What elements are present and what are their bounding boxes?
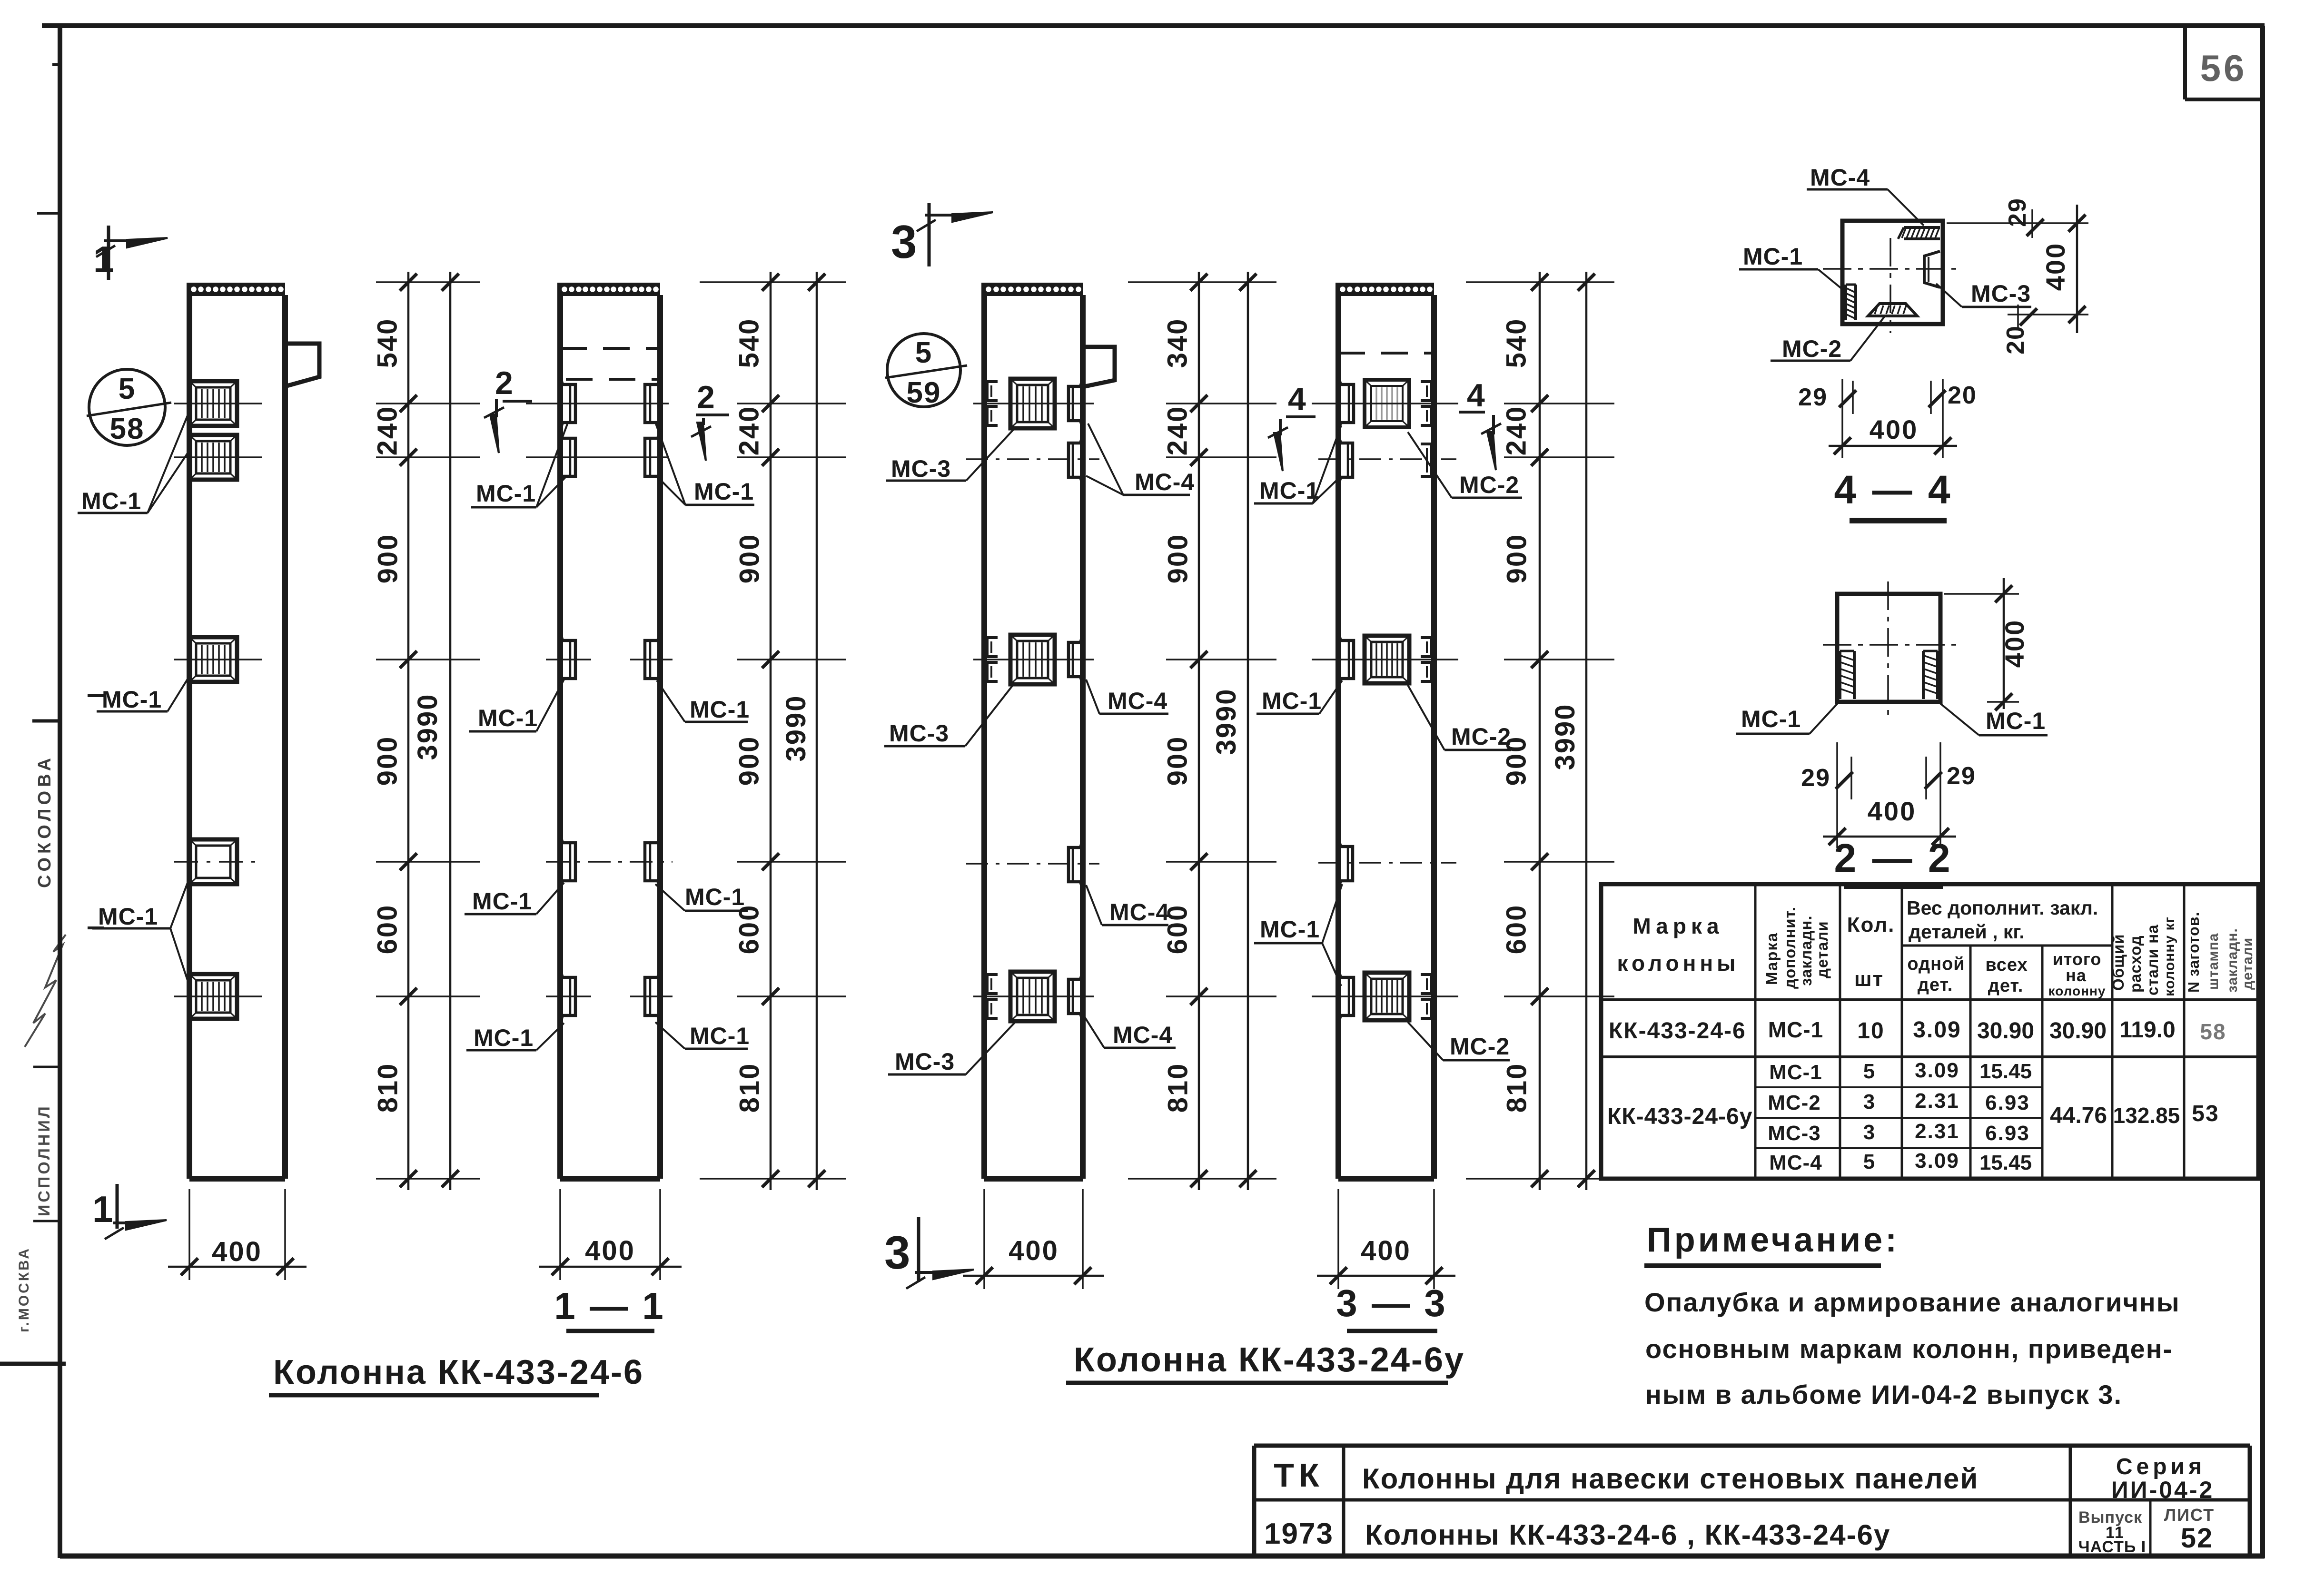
svg-text:г.МОСКВА: г.МОСКВА (16, 1247, 32, 1332)
embedded plate МС-1 on column 1 at row 2 (189, 435, 237, 480)
svg-text:2.31: 2.31 (1915, 1120, 1959, 1143)
svg-text:МС-1: МС-1 (1986, 708, 2046, 734)
title block sheet subject (1365, 1519, 1890, 1551)
svg-text:2: 2 (495, 365, 513, 401)
svg-text:5: 5 (915, 336, 932, 369)
svg-text:дополнит.: дополнит. (1781, 906, 1799, 989)
embedded plate МС-1 on column 1 at row 3 (189, 637, 237, 682)
svg-text:штампа: штампа (2206, 933, 2221, 990)
table row КК-433-24-6у (1607, 1059, 2219, 1174)
svg-text:3: 3 (1863, 1090, 1876, 1113)
svg-text:3.09: 3.09 (1915, 1149, 1959, 1172)
svg-text:2: 2 (697, 379, 715, 415)
svg-text:900: 900 (1163, 533, 1194, 584)
svg-text:59: 59 (907, 376, 941, 409)
margin signature (25, 935, 66, 1047)
plate tabs edge view column 2 row 5 (560, 970, 660, 1023)
column КК-433-24-6у front view outline (1338, 283, 1434, 1179)
svg-text:КК-433-24-6у: КК-433-24-6у (1607, 1104, 1752, 1129)
svg-text:5: 5 (1863, 1060, 1876, 1083)
svg-text:400: 400 (1868, 796, 1916, 826)
svg-text:6.93: 6.93 (1985, 1091, 2030, 1114)
svg-text:400: 400 (1361, 1235, 1411, 1266)
svg-text:МС-1: МС-1 (690, 696, 750, 723)
svg-text:МС-4: МС-4 (1109, 899, 1169, 926)
svg-text:900: 900 (373, 533, 404, 584)
table row КК-433-24-6 (1609, 1017, 2226, 1044)
plate МС-4 in section 4-4 (1898, 227, 1940, 239)
svg-text:Вес дополнит. закл.: Вес дополнит. закл. (1907, 897, 2098, 919)
svg-text:3990: 3990 (1211, 688, 1242, 755)
svg-text:МС-3: МС-3 (889, 720, 949, 747)
svg-text:600: 600 (734, 904, 765, 955)
title block year 1973 (1264, 1517, 1334, 1550)
label МС-1 (column 2 mid-left tab) (469, 680, 564, 731)
overall dimension 3990 (column 1) (412, 272, 459, 1190)
centerline row 5 column 2 (546, 995, 673, 997)
embedded plate МС-1 on column 1 at row 4 (189, 839, 237, 884)
label МС-1 (column 2 row4-right tab) (655, 884, 748, 911)
svg-text:20: 20 (1948, 382, 1977, 409)
svg-text:1973: 1973 (1264, 1517, 1334, 1550)
title block grid (1254, 1446, 2250, 1556)
plates on column 3 row 2 (1068, 436, 1083, 484)
embedded plate МС-1 on column 1 at row 5 (189, 974, 237, 1019)
dimension 29-400-29 under 2-2 (1801, 742, 1976, 848)
centerline row 2 column 1 (174, 456, 262, 458)
svg-text:30.90: 30.90 (1977, 1018, 2034, 1044)
svg-text:на: на (2066, 965, 2087, 985)
centerline row 5 column 1 (174, 995, 262, 997)
extension lines chain C (700, 282, 846, 1179)
svg-text:3: 3 (1863, 1121, 1876, 1144)
label МС-1 (section 4-4) (1739, 243, 1845, 291)
svg-text:900: 900 (734, 533, 765, 584)
dimension chain line (column 1) (400, 272, 417, 1190)
centerline row 3 column 4 (1312, 659, 1458, 660)
svg-text:29: 29 (2004, 197, 2031, 227)
section marker 1 (top) (93, 226, 168, 280)
svg-text:29: 29 (1947, 762, 1976, 790)
title block subject (1362, 1463, 1979, 1495)
svg-text:МС-4: МС-4 (1113, 1022, 1173, 1048)
label МС-1 (column 2 row5-right tab) (655, 1022, 750, 1049)
centerline row 3 column 1 (174, 659, 262, 660)
label МС-1 (column 4 top tab) (1254, 425, 1341, 504)
dimension 400 under column 1 (168, 1189, 307, 1280)
dimension chain labels (column 4) (1501, 318, 1533, 1113)
section marker 1 (bottom) (92, 1184, 167, 1239)
label МС-2 (column 4 top plate) (1408, 432, 1522, 498)
svg-text:колонну кг: колонну кг (2162, 916, 2177, 996)
label МС-1 (column 1 top plates) (78, 412, 189, 514)
svg-text:расход: расход (2127, 935, 2144, 993)
dimension 400 under column 3 (963, 1189, 1104, 1289)
label МС-1 (column 2 mid-right tab) (657, 680, 750, 723)
centerline row 1 column 4 (1312, 403, 1458, 404)
label МС-3 (column 3 top) (886, 429, 1014, 482)
svg-text:132.85: 132.85 (2113, 1103, 2180, 1128)
centerline row 4 column 1 (174, 861, 263, 863)
svg-text:МС-1: МС-1 (474, 1025, 534, 1051)
dimension 400 under column 2 (539, 1189, 682, 1280)
svg-text:шт: шт (1854, 967, 1884, 991)
label МС-2 (column 4 bottom plate) (1408, 1022, 1510, 1060)
svg-text:15.45: 15.45 (1979, 1060, 2032, 1083)
dimension chain line (column 4) (1531, 272, 1548, 1190)
svg-text:Опалубка и армирование аналог: Опалубка и армирование аналогичны (1644, 1287, 2180, 1317)
title block Выпуск 11 Часть I (2078, 1508, 2146, 1556)
svg-text:дет.: дет. (1988, 976, 2024, 996)
label МС-2 (column 4 middle plate) (1408, 685, 1511, 750)
svg-text:400: 400 (212, 1236, 262, 1267)
svg-text:810: 810 (1163, 1063, 1194, 1113)
embedded plate МС-1 on column 1 at row 1 (189, 381, 237, 426)
svg-text:колонну: колонну (2048, 984, 2106, 998)
label МС-3 (column 3 middle) (884, 685, 1013, 747)
plates МС-1 in section 2-2 (1840, 651, 1938, 699)
svg-text:119.0: 119.0 (2119, 1017, 2175, 1043)
centerlines of section 4-4 (1823, 238, 1959, 333)
plates on column 3 row 5 (987, 972, 1083, 1021)
svg-text:ЧАСТЬ I: ЧАСТЬ I (2078, 1538, 2146, 1556)
centerline row 5 column 4 (1312, 995, 1458, 997)
svg-text:одной: одной (1907, 954, 1965, 974)
column 2 formwork top band (560, 283, 660, 296)
margin stamp ИСПОЛНИЛ (33, 1067, 61, 1221)
svg-text:53: 53 (2192, 1101, 2219, 1126)
column 1 console bracket (285, 344, 319, 386)
label МС-1 (column 4 middle tab) (1256, 680, 1342, 714)
note heading Примечание (1644, 1221, 1899, 1266)
plate tabs edge view column 2 row 4 (560, 836, 660, 888)
svg-text:МС-1: МС-1 (98, 903, 158, 930)
centerline row 4 column 4 (1318, 862, 1456, 864)
svg-text:МС-1: МС-1 (472, 888, 532, 915)
dimension 400 right of 2-2 (1944, 578, 2029, 710)
label МС-3 (section 4-4) (1936, 280, 2031, 307)
column КК-433-24-6 front view outline (560, 283, 660, 1179)
label МС-1 (section 2-2 right) (1939, 703, 2048, 735)
caption 2-2 (1834, 836, 1952, 886)
svg-text:29: 29 (1801, 764, 1830, 792)
svg-text:4 — 4: 4 — 4 (1834, 467, 1952, 512)
svg-text:МС-3: МС-3 (891, 455, 951, 482)
plate МС-1 in section 4-4 (1846, 285, 1856, 320)
margin stamp МОСКВА (16, 1247, 32, 1332)
svg-text:400: 400 (585, 1235, 635, 1266)
svg-text:1: 1 (93, 238, 114, 280)
table header Общий расход стали (2109, 916, 2177, 996)
table header Одной дет (1907, 954, 1965, 995)
svg-text:1 — 1: 1 — 1 (554, 1285, 665, 1327)
dimension chain labels (column 3) (1162, 318, 1194, 1113)
label МС-1 (column 2 top-right tabs) (655, 423, 754, 505)
svg-text:МС-1: МС-1 (476, 480, 536, 507)
svg-text:30.90: 30.90 (2049, 1018, 2107, 1044)
svg-text:240: 240 (734, 405, 765, 456)
title block Лист 52 (2164, 1505, 2215, 1554)
svg-text:МС-4: МС-4 (1135, 469, 1195, 495)
svg-text:900: 900 (1501, 736, 1532, 786)
svg-text:240: 240 (1162, 405, 1193, 456)
section marker 3 (bottom) (884, 1217, 974, 1289)
caption Колонна КК-433-24-6у (1066, 1341, 1465, 1383)
svg-text:3 — 3: 3 — 3 (1336, 1282, 1447, 1324)
svg-text:ным в альбоме ИИ-04-2 выпуск: ным в альбоме ИИ-04-2 выпуск 3. (1645, 1379, 2122, 1409)
caption 1-1 (554, 1285, 665, 1331)
dimension chain labels 540-240-900-900-600-810 (column 1) (372, 318, 404, 1113)
plate tabs edge view column 2 row 1 (560, 377, 660, 430)
section marker 3 (top) (891, 203, 993, 268)
extension lines chain E (1128, 282, 1276, 1179)
svg-text:основным маркам колонн, прив: основным маркам колонн, приведен- (1645, 1334, 2173, 1364)
centerline row 4 column 3 (966, 863, 1099, 865)
dimension 29-400-20 right of 4-4 (1947, 197, 2088, 355)
svg-text:N заготов.: N заготов. (2185, 912, 2202, 993)
svg-text:540: 540 (734, 318, 765, 368)
plates on column 4 row 4 (1338, 839, 1353, 888)
centerline row 2 column 2 (526, 456, 669, 458)
plates on column 3 row 3 (987, 635, 1083, 684)
callout circle 5/59 (885, 334, 967, 409)
svg-text:МС-3: МС-3 (1768, 1122, 1821, 1145)
centerlines of section 2-2 (1823, 581, 1956, 718)
svg-text:ИИ-04-2: ИИ-04-2 (2111, 1477, 2215, 1503)
label МС-1 (column 2 top-left tabs) (471, 422, 568, 507)
svg-text:Серия: Серия (2116, 1454, 2206, 1479)
section marker 2 (left of column 2) (484, 365, 532, 453)
callout circle 5/58 (87, 369, 171, 445)
svg-text:МС-1: МС-1 (690, 1023, 750, 1049)
dimension 29-400-20 under 4-4 (1798, 379, 1977, 458)
svg-text:детали: детали (2240, 937, 2256, 990)
svg-text:МС-3: МС-3 (895, 1048, 955, 1075)
table header Марка колонны (1617, 914, 1740, 975)
svg-text:4: 4 (1288, 381, 1306, 417)
table grid (1601, 884, 2258, 1179)
overall dimension 3990 (column 3) (1211, 272, 1256, 1190)
svg-text:МС-1: МС-1 (1741, 706, 1801, 732)
svg-text:2.31: 2.31 (1915, 1089, 1959, 1113)
label МС-4 (column 3 bottom tab) (1083, 1014, 1176, 1048)
plate МС-3 in section 4-4 (1924, 251, 1940, 287)
svg-text:МС-1: МС-1 (1769, 1061, 1822, 1084)
svg-text:3990: 3990 (781, 694, 811, 761)
svg-text:МС-4: МС-4 (1810, 164, 1870, 191)
svg-text:810: 810 (1502, 1063, 1533, 1113)
plate МС-2 in section 4-4 (1868, 304, 1917, 316)
section marker 4 (left of column 4) (1268, 381, 1316, 471)
svg-text:900: 900 (372, 736, 403, 786)
svg-text:МС-1: МС-1 (1260, 916, 1320, 943)
svg-text:3: 3 (884, 1226, 910, 1279)
centerline row 5 column 3 (973, 995, 1094, 997)
svg-text:МС-1: МС-1 (1262, 688, 1322, 714)
extension lines chain G (1466, 282, 1614, 1179)
centerline row 2 column 3 (966, 458, 1099, 460)
svg-text:МС-2: МС-2 (1768, 1091, 1821, 1114)
detail 4-4 column section outline (1842, 221, 1943, 324)
svg-text:5: 5 (1863, 1150, 1876, 1173)
svg-text:3: 3 (891, 216, 917, 268)
note line 3 (1645, 1379, 2122, 1409)
svg-text:340: 340 (1162, 318, 1193, 368)
svg-text:МС-1: МС-1 (478, 705, 538, 731)
svg-text:400: 400 (1999, 619, 2029, 668)
svg-text:400: 400 (1870, 414, 1918, 444)
note line 2 (1645, 1334, 2173, 1364)
margin fold marks (0, 65, 104, 1364)
dimension chain line (column 3) (1190, 272, 1207, 1190)
table header N заготовки (2185, 912, 2256, 993)
svg-text:детали: детали (1813, 921, 1831, 978)
svg-text:МС-1: МС-1 (1768, 1017, 1823, 1042)
svg-text:МС-1: МС-1 (102, 686, 162, 713)
svg-text:ЛИСТ: ЛИСТ (2164, 1505, 2215, 1525)
label МС-1 (section 2-2 left) (1736, 703, 1838, 734)
svg-text:стали на: стали на (2144, 924, 2161, 995)
svg-text:колонны: колонны (1617, 951, 1740, 975)
svg-text:закладн.: закладн. (2225, 928, 2240, 993)
column 2 hidden console dashed lines (560, 348, 660, 379)
svg-text:всех: всех (1985, 955, 2028, 975)
svg-text:Общий: Общий (2109, 934, 2127, 991)
svg-text:Колонна КК-433-24-6у: Колонна КК-433-24-6у (1074, 1341, 1465, 1379)
svg-text:540: 540 (372, 318, 403, 368)
note line 1 (1644, 1287, 2180, 1317)
dimension chain labels (column 2) (734, 318, 765, 1113)
svg-text:Колонны КК-433-24-6 , КК-433-: Колонны КК-433-24-6 , КК-433-24-6у (1365, 1519, 1890, 1551)
detail 2-2 column section outline (1837, 594, 1940, 702)
svg-text:МС-2: МС-2 (1459, 472, 1519, 498)
section marker 4 (right of column 4) (1459, 377, 1501, 470)
svg-text:52: 52 (2181, 1523, 2214, 1554)
plates on column 4 row 3 (1338, 633, 1431, 686)
column 1 formwork top band (189, 283, 285, 296)
svg-text:КК-433-24-6: КК-433-24-6 (1609, 1018, 1746, 1044)
extension lines chain A (376, 282, 480, 1179)
svg-text:3990: 3990 (412, 693, 443, 760)
centerline row 1 column 1 (174, 403, 262, 404)
svg-text:ИСПОЛНИЛ: ИСПОЛНИЛ (35, 1104, 53, 1216)
plates on column 4 row 1 (1338, 377, 1431, 430)
svg-text:240: 240 (1501, 405, 1532, 456)
svg-text:810: 810 (734, 1063, 765, 1113)
svg-text:44.76: 44.76 (2050, 1103, 2107, 1128)
label МС-3 (column 3 bottom) (888, 1022, 1015, 1075)
svg-text:Марка: Марка (1763, 932, 1781, 985)
svg-text:МС-1: МС-1 (694, 478, 754, 505)
svg-text:закладн.: закладн. (1797, 915, 1815, 986)
svg-text:20: 20 (2002, 325, 2029, 355)
svg-text:Колонна КК-433-24-6: Колонна КК-433-24-6 (273, 1353, 644, 1391)
label МС-4 (column 3 top tabs) (1086, 424, 1195, 495)
caption Колонна КК-433-24-6 (269, 1353, 644, 1395)
centerline row 1 column 2 (526, 403, 669, 404)
svg-text:600: 600 (1501, 904, 1532, 955)
svg-text:1: 1 (92, 1188, 113, 1230)
svg-text:3.09: 3.09 (1913, 1017, 1961, 1043)
svg-text:600: 600 (1162, 904, 1193, 955)
label МС-2 (section 4-4) (1771, 315, 1886, 362)
svg-text:29: 29 (1798, 384, 1828, 411)
table header Кол шт (1847, 913, 1895, 991)
svg-text:дет.: дет. (1918, 975, 1953, 995)
plate tabs edge view column 2 row 2 (560, 431, 660, 483)
label МС-4 (column 3 middle tab) (1086, 680, 1168, 714)
svg-text:Примечание:: Примечание: (1647, 1221, 1899, 1259)
svg-text:4: 4 (1467, 377, 1485, 414)
column КК-433-24-6у side view outline (984, 283, 1083, 1179)
section marker 2 (right of column 2) (691, 379, 729, 461)
svg-text:МС-4: МС-4 (1108, 688, 1167, 714)
title block Серия ИИ-04-2 (2111, 1454, 2215, 1503)
column КК-433-24-6 side view outline (189, 283, 285, 1179)
caption 3-3 (1336, 1282, 1447, 1331)
svg-text:56: 56 (2200, 47, 2247, 89)
svg-text:Кол.: Кол. (1847, 913, 1895, 936)
table header Итого на колонну (2048, 949, 2106, 998)
svg-text:МС-3: МС-3 (1971, 280, 2031, 307)
title block ТК (1274, 1457, 1324, 1494)
svg-text:600: 600 (372, 904, 403, 955)
svg-text:МС-1: МС-1 (1259, 477, 1319, 504)
svg-text:МС-2: МС-2 (1450, 1033, 1510, 1060)
svg-text:900: 900 (1502, 533, 1533, 584)
label МС-1 (column 2 row5-left tab) (466, 1023, 564, 1051)
svg-text:СОКОЛОВА: СОКОЛОВА (35, 754, 55, 888)
plate tabs edge view column 2 row 3 (560, 633, 660, 686)
svg-text:10: 10 (1857, 1018, 1884, 1044)
svg-text:2 — 2: 2 — 2 (1834, 836, 1952, 880)
centerline row 3 column 2 (546, 659, 673, 660)
column 3 console bracket (1083, 347, 1115, 387)
page number box top-right (2185, 26, 2263, 99)
svg-text:МС-4: МС-4 (1769, 1151, 1822, 1174)
centerline row 3 column 3 (973, 659, 1094, 660)
svg-text:3990: 3990 (1550, 703, 1581, 770)
centerline row 4 column 2 (546, 861, 673, 863)
overall dimension 3990 (column 4) (1550, 272, 1595, 1190)
column 3 formwork top band (984, 283, 1083, 296)
overall dimension 3990 (column 2) (781, 272, 825, 1190)
svg-text:5: 5 (119, 373, 136, 405)
svg-text:Колонны для навески стеновы: Колонны для навески стеновых панелей (1362, 1463, 1979, 1495)
dimension chain line (column 2) (762, 272, 779, 1190)
svg-text:3.09: 3.09 (1915, 1059, 1959, 1082)
label МС-1 (column 1 lower plates) (92, 880, 188, 983)
table header Всех дет (1985, 955, 2028, 996)
label МС-1 (column 1 middle plate) (97, 678, 188, 713)
svg-text:810: 810 (373, 1063, 404, 1113)
dimension 400 under column 4 (1317, 1189, 1455, 1289)
svg-text:240: 240 (372, 405, 403, 456)
centerline row 1 column 3 (973, 403, 1094, 404)
svg-text:ТК: ТК (1274, 1457, 1324, 1494)
svg-text:900: 900 (734, 736, 765, 786)
svg-text:58: 58 (110, 413, 145, 445)
table header Марка дополнит закладн детали (1763, 906, 1831, 989)
svg-text:400: 400 (2040, 242, 2070, 291)
column 4 formwork top band (1338, 283, 1434, 296)
caption 4-4 (1834, 467, 1952, 521)
svg-text:МС-1: МС-1 (81, 488, 141, 514)
label МС-4 (section 4-4) (1807, 164, 1924, 226)
svg-text:540: 540 (1501, 318, 1532, 368)
label МС-1 (column 2 row4-left tab) (465, 883, 564, 915)
svg-text:58: 58 (2200, 1019, 2226, 1044)
